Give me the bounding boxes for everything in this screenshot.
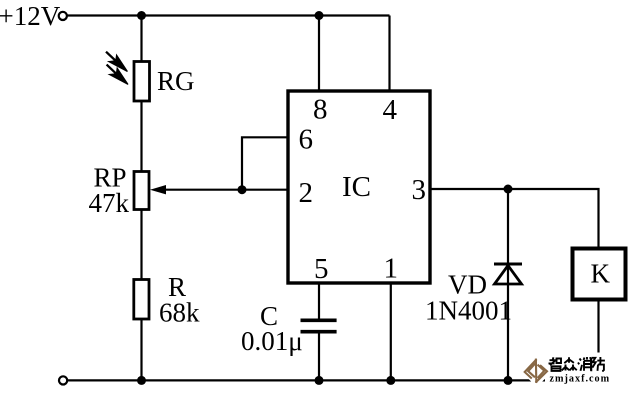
node bottom pin1 junction [386, 376, 395, 385]
svg-text:0.01μ: 0.01μ [241, 326, 303, 356]
diode VD [494, 264, 522, 284]
node top pin8 junction [315, 11, 324, 20]
watermark logo [525, 360, 547, 382]
wire C to bottom rail [318, 333, 320, 380]
svg-text:RG: RG [157, 66, 195, 96]
wire RP to R [140, 209, 142, 280]
node bottom C junction [315, 376, 324, 385]
svg-text:8: 8 [313, 94, 328, 126]
node pin3 VD junction [504, 185, 513, 194]
terminal +12V [59, 12, 67, 20]
node top RG junction [137, 11, 146, 20]
svg-text:IC: IC [342, 171, 371, 203]
svg-text:4: 4 [383, 94, 398, 126]
svg-text:47k: 47k [89, 188, 130, 218]
watermark background [520, 353, 610, 388]
node bottom R junction [137, 376, 146, 385]
svg-text:1: 1 [384, 253, 399, 285]
wire pin6 loop [242, 137, 288, 189]
wire R to bottom rail [140, 319, 142, 380]
potentiometer RP [134, 172, 166, 210]
wire pin3 rail [430, 189, 599, 249]
resistor R [134, 280, 149, 320]
node bottom VD junction [504, 376, 513, 385]
svg-text:2: 2 [299, 177, 314, 209]
photoresistor RG [106, 52, 150, 101]
wire bottom rail [68, 379, 599, 381]
node wiper junction [238, 185, 247, 194]
svg-text:6: 6 [299, 123, 314, 155]
wire pin5 lead [318, 283, 320, 319]
op-amp U1 IC body [288, 91, 430, 283]
wire top rail [67, 14, 389, 16]
wire pin2 to RP wiper [163, 189, 288, 191]
svg-text:68k: 68k [159, 298, 200, 328]
wire VD branch [507, 189, 509, 380]
svg-text:1N4001: 1N4001 [425, 296, 512, 326]
svg-text:K: K [591, 259, 611, 289]
wire K bottom lead [597, 300, 599, 380]
wire RG top lead [140, 16, 142, 63]
wire RG to RP [140, 101, 142, 172]
svg-text:3: 3 [412, 174, 427, 206]
wire pin4 lead [388, 16, 390, 92]
svg-text:+12V: +12V [0, 1, 61, 31]
svg-text:5: 5 [314, 253, 329, 285]
wire pin8 lead [318, 16, 320, 92]
terminal bottom left [59, 376, 67, 384]
watermark CJK text 智淼消防 [549, 357, 605, 371]
svg-text:zmjaxf.com: zmjaxf.com [550, 374, 611, 385]
wire pin1 lead [390, 283, 392, 380]
relay K [573, 249, 626, 300]
capacitor C [301, 320, 337, 331]
